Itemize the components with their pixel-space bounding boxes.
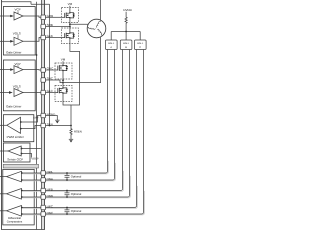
node Q4 return on sense bus — [70, 125, 72, 127]
wire U3 input lower to SEN — [21, 126, 41, 129]
Sense OCP block (U4) — [3, 143, 30, 162]
svg-text:DVDD: DVDD — [123, 8, 132, 12]
wire input INLC with arrow — [0, 92, 10, 94]
svg-text:HALL: HALL — [108, 42, 115, 45]
wire HPC — [22, 206, 137, 208]
wire HPA — [22, 171, 108, 173]
pin HPB — [41, 188, 46, 193]
svg-text:VCP: VCP — [15, 62, 21, 66]
wire HNC — [22, 212, 144, 214]
svg-text:Optional: Optional — [71, 175, 82, 179]
wire SHC pin to phase C node — [46, 80, 64, 83]
pin HNA — [41, 178, 46, 183]
svg-text:C: C — [139, 46, 141, 49]
svg-text:tOFF: tOFF — [33, 117, 39, 120]
node rail1 junction — [36, 54, 38, 56]
wire top net B — [31, 3, 50, 5]
wire input INHB with arrow — [0, 15, 10, 17]
wire hall B plus down to HPB — [122, 50, 124, 189]
pin HNC — [41, 212, 46, 217]
ground PGND — [55, 119, 59, 121]
svg-text:RSEN: RSEN — [74, 129, 82, 133]
hall sensor A — [106, 40, 118, 50]
wire VM to Q1 drain — [69, 6, 71, 10]
wire PGND pin to ground — [46, 116, 58, 121]
wire shadows (staircase) — [22, 161, 144, 215]
wire phase B to motor — [70, 23, 88, 25]
digital core bar — [3, 164, 38, 168]
transistor Q3 (high-side C, dashed box) — [55, 63, 72, 79]
wire phase C column — [62, 79, 64, 85]
node hall supply junction — [125, 31, 127, 33]
wire internal rail 2 — [41, 0, 43, 230]
svg-text:Gate Driver: Gate Driver — [6, 50, 21, 54]
svg-text:HPC: HPC — [47, 204, 54, 208]
resistor R1 (hall pull-up) — [125, 12, 127, 32]
svg-text:VOCP: VOCP — [31, 158, 39, 161]
wire SHB internal stub — [40, 26, 42, 28]
svg-text:VGLS: VGLS — [13, 31, 21, 35]
wire U1B output to GLB — [23, 38, 41, 42]
svg-text:VGLS: VGLS — [13, 84, 21, 88]
pin GLB — [41, 35, 46, 40]
wire hall A minus down to HNA — [114, 50, 116, 179]
buffer amp U1A — [14, 12, 23, 20]
node HNB comparator input — [21, 196, 23, 198]
wire GLB pin to Q2 gate — [46, 37, 62, 39]
wire hall C minus down to HNC — [143, 50, 145, 213]
svg-text:HNB: HNB — [47, 194, 53, 198]
node HNA comparator input — [21, 179, 23, 181]
svg-text:Optional: Optional — [71, 192, 82, 196]
resistor RSENSE — [70, 126, 72, 140]
svg-text:Comparators: Comparators — [7, 220, 23, 223]
IC body background — [0, 0, 45, 230]
wire SHC internal stub — [40, 79, 42, 81]
comparator U5A — [7, 171, 22, 182]
capacitor C2 (optional, hall B) — [65, 191, 70, 198]
wire Q2 source return — [70, 44, 80, 126]
wire HNB — [22, 195, 130, 197]
comparator U4 — [8, 146, 21, 156]
capacitor C1 (optional, hall A) — [65, 173, 70, 180]
wire hall supply bus — [111, 32, 140, 41]
node HNC comparator input — [21, 213, 23, 215]
wire U2A output to GHC — [23, 69, 41, 71]
wire VM to Q3 drain — [62, 61, 64, 65]
svg-text:HALL: HALL — [123, 42, 130, 45]
transistor Q2 (low-side B, dashed box) — [61, 28, 78, 44]
wire hall B minus down to HNB — [129, 50, 131, 196]
node phase B SHB tap — [69, 26, 71, 28]
svg-text:Gate Driver: Gate Driver — [6, 105, 21, 109]
svg-text:VM: VM — [68, 2, 73, 6]
svg-text:HPA: HPA — [47, 170, 53, 174]
wire U4 output to core — [0, 150, 8, 152]
wire U4 input lower to Vocp — [21, 154, 31, 158]
wire U4 input upper — [21, 148, 41, 150]
wire U2B output to GLC — [23, 92, 41, 94]
node SLA on sense bus — [49, 125, 51, 127]
wire GLC pin to Q4 gate — [46, 92, 56, 94]
wire U5C output — [0, 210, 7, 212]
wire GHC pin to Q3 gate — [46, 69, 56, 71]
wire phase A up (cropped half-bridge) — [100, 0, 102, 20]
wire Q4 source return — [63, 101, 71, 105]
wire hall C plus down to HPC — [136, 50, 138, 206]
node HPC comparator input — [21, 207, 23, 209]
wire phase B column — [69, 23, 71, 29]
node U4 input lower — [21, 153, 23, 155]
node HPB comparator input — [21, 190, 23, 192]
wire U3 output to core — [0, 124, 7, 126]
comparator U5B — [7, 189, 22, 200]
pin GHC — [41, 68, 46, 73]
transistor Q4 (low-side C, dashed box) — [55, 85, 72, 101]
svg-text:VM: VM — [61, 58, 66, 62]
svg-text:HALL: HALL — [137, 42, 144, 45]
wire SEN pin to sense bus — [46, 125, 72, 127]
wire GHB pin to Q1 gate — [46, 16, 62, 18]
svg-text:HPB: HPB — [47, 187, 53, 191]
wire vertical SLA return — [49, 4, 51, 125]
gate driver block B (U1) — [3, 7, 35, 56]
buffer amp U1B — [14, 37, 23, 45]
wire internal rail 1 — [36, 2, 38, 230]
pin HNB — [41, 195, 46, 200]
wire hall A plus down to HPA — [107, 50, 109, 172]
wire HNA — [22, 178, 115, 180]
pin GLC — [41, 90, 46, 95]
ground RSENSE — [69, 138, 73, 140]
svg-text:PWM Limiter: PWM Limiter — [7, 135, 24, 139]
pin HPA — [41, 171, 46, 176]
wire input INHC with arrow — [0, 69, 10, 71]
node U3 input upper — [20, 121, 22, 123]
svg-text:Optional: Optional — [71, 209, 82, 213]
wire input INLB with arrow — [0, 40, 10, 42]
svg-text:VCP: VCP — [15, 8, 21, 12]
wire U5B output — [0, 193, 7, 195]
pin SHC — [41, 78, 46, 83]
pin GHB — [41, 15, 46, 20]
pin PGND — [41, 113, 46, 118]
IC outline (left, right, bottom edges; top cropped) — [2, 0, 45, 230]
node phase C SHC tap — [62, 79, 64, 81]
wire HPB — [22, 189, 123, 191]
svg-text:HNC: HNC — [47, 211, 54, 215]
buffer amp U2B — [14, 89, 23, 97]
IC right-edge shaded band — [42, 0, 45, 230]
wire top net A — [2, 2, 32, 5]
buffer amp U2A — [14, 66, 23, 74]
node U3 input lower — [20, 128, 22, 130]
differential comparators block (U5) — [3, 169, 34, 225]
wire SHB pin to phase B node — [46, 26, 70, 28]
pin SHB — [41, 24, 46, 29]
comparator U3 — [7, 117, 21, 133]
hall sensor C — [135, 40, 147, 50]
node phase C motor tap — [62, 82, 64, 84]
node HPA comparator input — [21, 172, 23, 174]
svg-text:Sense OCP: Sense OCP — [7, 158, 23, 162]
hall sensor B — [120, 40, 132, 50]
motor winding spokes — [88, 20, 103, 35]
transistor Q1 (high-side B, dashed box) — [61, 8, 78, 23]
motor M1 (3-phase) — [87, 19, 106, 38]
wire U5A output — [0, 176, 7, 178]
capacitor C3 (optional, hall C) — [65, 208, 70, 215]
wire U1A output to GHB — [23, 16, 41, 17]
comparator U5C — [7, 206, 22, 217]
wire phase C to motor — [63, 37, 101, 82]
pin HPC — [41, 205, 46, 210]
PWM limiter block (U3) — [3, 115, 33, 142]
wire U3 input upper to PGND — [21, 116, 41, 123]
svg-text:HNA: HNA — [47, 177, 53, 181]
pin SEN — [41, 123, 46, 128]
node U4 input upper — [21, 148, 23, 150]
gate driver block C (U2) — [3, 60, 35, 111]
node phase B motor tap — [69, 23, 71, 25]
